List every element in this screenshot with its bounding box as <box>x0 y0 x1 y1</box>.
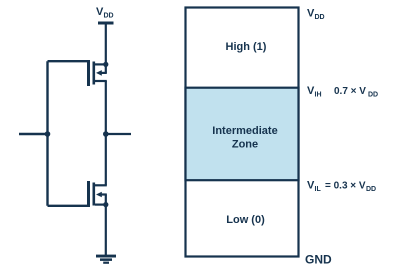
gate bar <box>87 60 90 86</box>
svg-text:High (1): High (1) <box>226 41 267 53</box>
junction dot at source <box>103 202 108 207</box>
source stub (top) <box>95 63 107 65</box>
svg-text:Intermediate: Intermediate <box>212 125 277 137</box>
svg-text:Low (0): Low (0) <box>226 214 265 226</box>
drain stub (bottom) <box>95 80 107 82</box>
wire: gate bus bottom (to NMOS gate) <box>48 205 89 207</box>
VDD label (left schematic) <box>96 6 114 20</box>
transistor Q1 (PMOS) <box>87 60 108 86</box>
net label VIH = 0.7 x VDD <box>307 85 378 99</box>
bulk tie to source <box>105 195 107 205</box>
node: input junction dot <box>45 131 51 137</box>
wire: output node to NMOS drain <box>105 134 107 185</box>
net label VIL = 0.3 x VDD <box>307 180 376 194</box>
svg-text:Zone: Zone <box>232 139 258 151</box>
svg-text:DD: DD <box>366 186 376 193</box>
svg-text:0.7 × V: 0.7 × V <box>334 86 366 97</box>
bulk tie to source <box>105 64 107 73</box>
bulk stub with arrow <box>99 72 107 74</box>
wire: PMOS drain to output node <box>105 81 107 134</box>
svg-text:= 0.3 × V: = 0.3 × V <box>325 181 366 192</box>
junction dot at source <box>103 62 108 67</box>
drain stub (top) <box>95 184 107 186</box>
net label VDD (right) <box>307 8 325 22</box>
source stub (bottom) <box>95 204 107 206</box>
channel bar <box>93 62 96 85</box>
svg-text:GND: GND <box>305 253 332 267</box>
gate bar <box>87 181 90 207</box>
node: output junction dot <box>103 131 109 137</box>
wire: VDD rail to PMOS source <box>105 23 107 64</box>
wire: gate bus left vertical <box>46 61 48 206</box>
bulk stub with arrow <box>99 193 107 195</box>
ground <box>96 255 116 264</box>
VDD rail bar <box>98 22 114 25</box>
transistor Q2 (NMOS) <box>87 181 108 207</box>
svg-text:DD: DD <box>315 14 325 21</box>
logic-level box (right diagram) <box>186 8 299 257</box>
svg-text:IL: IL <box>315 186 322 193</box>
svg-text:DD: DD <box>104 13 114 20</box>
intermediate zone (blue band) <box>186 88 299 181</box>
wire: NMOS source to ground <box>105 205 107 255</box>
svg-text:IH: IH <box>315 92 322 99</box>
svg-text:DD: DD <box>368 92 378 99</box>
wire: input stub <box>19 133 48 135</box>
wire: gate bus top (to PMOS gate) <box>48 60 89 62</box>
output wire stub <box>106 133 131 135</box>
channel bar <box>93 183 96 206</box>
